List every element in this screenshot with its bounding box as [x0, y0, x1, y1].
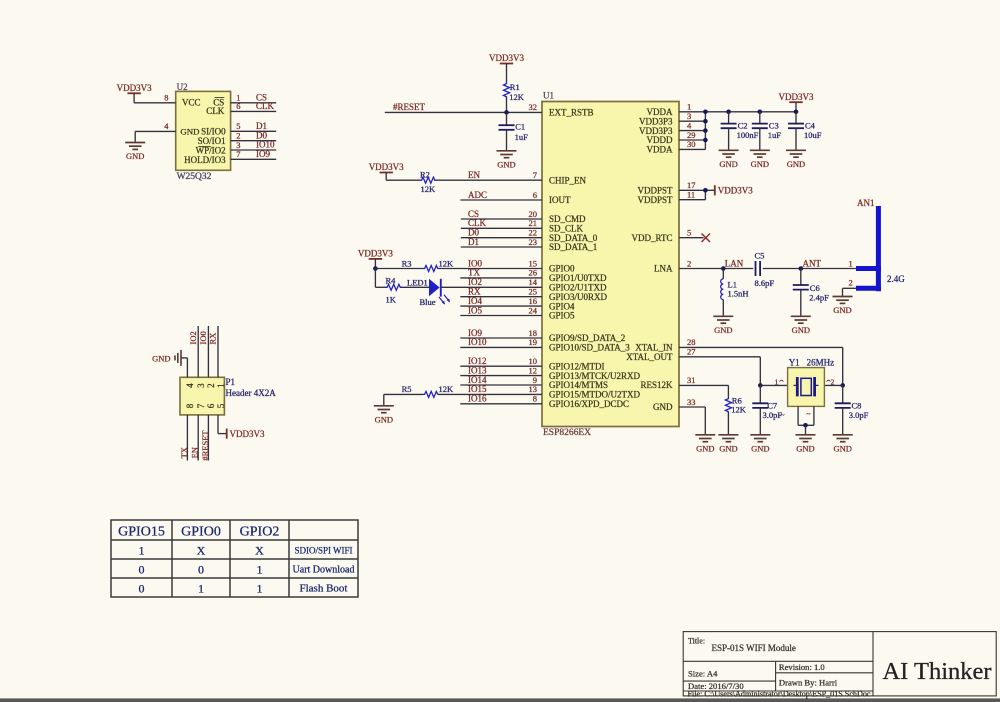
svg-text:AN1: AN1 [857, 198, 875, 208]
crystal Y1 body [788, 368, 825, 407]
svg-text:GND: GND [375, 414, 393, 424]
wire U1 net IO14 [460, 384, 542, 386]
svg-text:C3: C3 [769, 120, 779, 130]
svg-text:1.5nH: 1.5nH [728, 289, 749, 299]
capacitor C6 [793, 285, 809, 290]
svg-text:Size: A4: Size: A4 [688, 669, 718, 679]
svg-text:100nF: 100nF [737, 130, 759, 140]
wire U1 pin 1 power rail [679, 111, 796, 113]
wire header pin 3 net IO2 [197, 326, 199, 377]
svg-text:0: 0 [139, 563, 145, 577]
svg-text:2.4G: 2.4G [887, 274, 905, 284]
svg-text:32: 32 [529, 102, 538, 112]
wire U1 net ADC [460, 199, 542, 201]
wire header pin 2 net IO0 [207, 326, 209, 377]
svg-text:IO10: IO10 [468, 337, 487, 347]
capacitor C8 [835, 403, 851, 408]
svg-text:IO9: IO9 [256, 149, 270, 159]
power VDD3V3 [789, 101, 802, 103]
wire C7 to ground [759, 408, 761, 435]
junction IO0 node [373, 266, 378, 271]
svg-text:LAN: LAN [725, 258, 744, 268]
svg-text:Y1: Y1 [789, 357, 800, 367]
capacitor C5 series [756, 261, 761, 276]
wire U1 pin 11 VDDPST [679, 199, 705, 201]
wire pin 33 down [704, 407, 706, 435]
svg-text:U1: U1 [543, 91, 554, 101]
resistor R6 [725, 397, 731, 413]
ground [791, 316, 811, 323]
svg-text:Header 4X2A: Header 4X2A [226, 388, 277, 398]
svg-text:IOUT: IOUT [549, 195, 571, 205]
svg-text:Revision: 1.0: Revision: 1.0 [779, 662, 825, 672]
wire U1 net IO12 [460, 365, 542, 367]
wire IO0 node to R3 [375, 268, 423, 270]
svg-text:GND: GND [792, 325, 810, 335]
wire U1 net D0 [461, 237, 542, 239]
svg-text:R3: R3 [402, 258, 412, 268]
wire C2 to ground [728, 128, 730, 150]
wire R5 to U1 pin 13 [439, 393, 543, 395]
svg-text:VDD3V3: VDD3V3 [117, 83, 152, 93]
wire U1 net IO13 [460, 375, 542, 377]
svg-text:6: 6 [533, 190, 537, 200]
wire VDDPST join [704, 190, 706, 199]
capacitor C3 [752, 124, 768, 129]
wire rail to C2 [728, 112, 730, 124]
wire C5 to ANT node [763, 268, 858, 270]
ground [833, 435, 853, 442]
wire U1 net IO16 [460, 403, 542, 405]
main chip U1 ESP8266EX body [542, 102, 679, 427]
svg-text:LED1: LED1 [407, 277, 428, 287]
svg-text:8: 8 [185, 403, 195, 408]
svg-text:GPIO5: GPIO5 [549, 311, 575, 321]
svg-text:C4: C4 [805, 120, 816, 130]
crystal electrodes [794, 377, 819, 396]
svg-text:1: 1 [257, 582, 263, 596]
wire down to R6 [727, 385, 729, 397]
svg-text:1uF: 1uF [768, 130, 782, 140]
power VDD3V3 [500, 63, 513, 65]
wire C1 to ground [506, 130, 508, 151]
svg-text:IO2: IO2 [468, 277, 482, 287]
wire U2 pin 7 net IO9 [231, 158, 277, 160]
wire header pin 4 to ground [181, 357, 187, 359]
ground [719, 150, 739, 157]
svg-text:#RESET: #RESET [200, 430, 210, 461]
ground [695, 435, 715, 442]
svg-text:GND: GND [719, 159, 737, 169]
svg-text:31: 31 [687, 375, 696, 385]
svg-text:ESP8266EX: ESP8266EX [543, 428, 591, 438]
svg-text:10uF: 10uF [804, 130, 822, 140]
svg-text:8.6pF: 8.6pF [755, 278, 775, 288]
wire VDD3V3 to U2 VCC [133, 93, 135, 103]
capacitor C2 [721, 124, 737, 129]
svg-text:HOLD/IO3: HOLD/IO3 [184, 155, 226, 165]
wire U1 net TX [460, 277, 542, 279]
svg-text:#RESET: #RESET [393, 102, 426, 112]
power VDD3V3 port sideways [714, 185, 716, 195]
svg-text:IO16: IO16 [468, 394, 487, 404]
wire header pin 1 net RX [217, 326, 219, 377]
svg-text:3.0pF: 3.0pF [763, 410, 783, 420]
wire IO0 node down to R4 [374, 269, 376, 288]
capacitor C4 [788, 124, 804, 129]
wire U1 pin 5 VDD_RTC [679, 237, 704, 239]
wire U1 net CS [461, 218, 542, 220]
wire U1 pin 27 XTAL_OUT [679, 356, 760, 358]
wire header pin 6 net #RESET [207, 415, 209, 461]
ground [750, 435, 770, 442]
svg-text:33: 33 [687, 397, 696, 407]
svg-text:1: 1 [257, 563, 263, 577]
capacitor C7 [752, 403, 768, 408]
svg-text:GND: GND [751, 159, 769, 169]
resistor R1 [504, 82, 510, 98]
svg-text:Drawn By: Harri: Drawn By: Harri [779, 678, 838, 688]
svg-text:C2: C2 [738, 120, 748, 130]
junction reset node [504, 110, 509, 115]
svg-text:SDIO/SPI WIFI: SDIO/SPI WIFI [294, 546, 352, 556]
svg-text:LNA: LNA [654, 264, 673, 274]
svg-text:27: 27 [687, 347, 696, 357]
svg-text:VCC: VCC [182, 98, 201, 108]
svg-text:7: 7 [236, 149, 240, 159]
wire VDD3V3 down to EN wire [385, 173, 387, 181]
svg-text:7: 7 [533, 170, 537, 180]
svg-text:5: 5 [687, 228, 691, 238]
power VDD3V3 sideways for header [226, 429, 228, 439]
svg-text:15: 15 [529, 258, 538, 268]
svg-text:GND: GND [497, 159, 515, 169]
svg-text:ADC: ADC [468, 190, 487, 200]
svg-text:EN: EN [468, 170, 480, 180]
wire EN to U1 pin 7 [436, 179, 543, 181]
LED LED1 blue [429, 279, 450, 305]
wire to R4 [375, 286, 385, 288]
junction VDDPST [703, 188, 708, 193]
wire crystal left pin [760, 384, 789, 386]
svg-text:VDD3V3: VDD3V3 [230, 429, 265, 439]
resistor R4 [386, 284, 402, 290]
wire VDD3V3 down to IO0 node [374, 259, 376, 269]
svg-text:GND: GND [796, 443, 814, 453]
svg-text:GPIO16/XPD_DCDC: GPIO16/XPD_DCDC [549, 399, 629, 409]
svg-text:12K: 12K [421, 184, 437, 194]
svg-text:0: 0 [139, 582, 145, 596]
capacitor C1 [499, 125, 515, 130]
svg-text:11: 11 [687, 190, 695, 200]
svg-text:SD_DATA_1: SD_DATA_1 [549, 242, 597, 252]
wire R4 to LED1 [401, 286, 429, 288]
junction LAN node [721, 266, 726, 271]
svg-text:1: 1 [775, 377, 779, 386]
svg-text:3.0pF: 3.0pF [849, 410, 869, 420]
svg-text:GND: GND [696, 443, 714, 453]
svg-text:GND: GND [653, 402, 673, 412]
no-connect cross on pin 5 [702, 234, 711, 243]
wire C3 to ground [759, 128, 761, 150]
wire node to C1 [506, 112, 508, 125]
svg-text:1uF: 1uF [515, 132, 529, 142]
svg-text:Uart Download: Uart Download [293, 565, 355, 576]
svg-text:IO2: IO2 [188, 331, 198, 344]
junction crystal ground [803, 423, 808, 428]
inductor L1 [722, 269, 724, 279]
wire L1 to ground [722, 300, 724, 317]
ground [125, 143, 145, 150]
svg-text:GND: GND [833, 305, 851, 315]
wire #RESET to U1 pin 32 [385, 111, 542, 113]
svg-text:GPIO2: GPIO2 [240, 525, 280, 540]
svg-text:SO/IO1: SO/IO1 [198, 136, 226, 146]
svg-text:2.4pF: 2.4pF [809, 292, 829, 302]
svg-text:P1: P1 [226, 377, 236, 387]
svg-text:VDDA: VDDA [647, 145, 673, 155]
svg-text:U2: U2 [177, 82, 188, 92]
svg-text:2: 2 [206, 383, 216, 388]
svg-text:30: 30 [687, 139, 696, 149]
wire U1 pin 2 LNA [679, 268, 753, 270]
wire EN left segment [386, 179, 420, 181]
svg-text:8: 8 [533, 394, 537, 404]
resistor R5 [423, 391, 439, 397]
wire C6 to ground [800, 290, 802, 317]
wire crystal ground drop [805, 425, 807, 435]
crystal case ground pins [797, 406, 799, 425]
wire C7 tap [759, 385, 761, 403]
svg-text:1: 1 [216, 383, 226, 388]
svg-text:X: X [197, 544, 206, 558]
wire U1 pin 3 to power bus [679, 120, 705, 122]
svg-text:C1: C1 [515, 121, 525, 131]
svg-text:D1: D1 [468, 237, 479, 247]
svg-text:14: 14 [529, 277, 538, 287]
wire U1 net IO10 [460, 346, 542, 348]
wire U1 pin 4 to power bus [679, 130, 705, 132]
svg-text:IO0: IO0 [198, 331, 208, 344]
wire U1 pin 29 to power bus [679, 139, 705, 141]
svg-text:GND: GND [719, 443, 737, 453]
wire U1 net IO5 [460, 315, 542, 317]
svg-text:4: 4 [185, 383, 195, 388]
svg-text:VDDPST: VDDPST [637, 195, 673, 205]
svg-text:23: 23 [529, 237, 538, 247]
svg-text:1K: 1K [386, 294, 397, 304]
svg-text:EXT_RSTB: EXT_RSTB [549, 108, 594, 118]
svg-text:2: 2 [831, 377, 835, 386]
wire U1 net CLK [461, 227, 542, 229]
ground [833, 297, 853, 304]
boot mode table grid [111, 520, 358, 597]
svg-text:GND: GND [152, 353, 170, 363]
title block frame [683, 632, 996, 696]
junction power bus [703, 110, 708, 115]
svg-text:VDD3V3: VDD3V3 [358, 249, 393, 259]
svg-text:GND: GND [126, 151, 144, 161]
svg-text:GPIO0: GPIO0 [181, 525, 221, 540]
svg-text:R5: R5 [402, 384, 412, 394]
ground [374, 406, 394, 413]
svg-text:1: 1 [849, 258, 853, 268]
svg-text:VDD3V3: VDD3V3 [718, 186, 753, 196]
wire ground riser to R5 [383, 394, 385, 405]
svg-text:XTAL_OUT: XTAL_OUT [626, 352, 673, 362]
svg-text:W25Q32: W25Q32 [177, 172, 212, 182]
wire VDD3V3 to R1 [506, 64, 508, 83]
wire power bus vertical [704, 112, 706, 150]
svg-text:12K: 12K [439, 258, 455, 268]
svg-text:X: X [255, 544, 264, 558]
svg-text:3: 3 [196, 383, 206, 388]
svg-text:12K: 12K [509, 92, 525, 102]
svg-text:0: 0 [198, 563, 204, 577]
svg-text:VDD3V3: VDD3V3 [369, 162, 404, 172]
wire R6 to ground [727, 413, 729, 435]
wire U2 pin 1 net CS [231, 102, 277, 104]
svg-text:~: ~ [806, 409, 810, 418]
svg-text:Title:: Title: [688, 637, 705, 646]
svg-text:GND: GND [751, 443, 769, 453]
svg-text:ANT: ANT [803, 258, 822, 268]
svg-text:GND: GND [833, 443, 851, 453]
bottom scan bar [0, 698, 1000, 702]
svg-text:19: 19 [529, 337, 538, 347]
wire U2 pin 6 net CLK [231, 110, 277, 112]
junction crystal left [758, 383, 763, 388]
svg-text:2: 2 [687, 258, 691, 268]
wire rail to C3 [759, 112, 761, 124]
svg-text:IO0: IO0 [468, 258, 482, 268]
flash chip U2 W25Q32 body [176, 91, 231, 170]
wire antenna pin 2 to ground [843, 287, 857, 289]
svg-text:2: 2 [849, 277, 853, 287]
svg-text:1: 1 [139, 544, 145, 558]
wire crystal right pin [823, 384, 843, 386]
svg-text:Flash Boot: Flash Boot [300, 583, 348, 595]
junction rail taps [726, 110, 731, 115]
wire C4 to ground [795, 128, 797, 150]
wire U1 pin 33 GND [679, 406, 705, 408]
power VDD3V3 [369, 258, 382, 260]
wire U1 net D1 [461, 246, 542, 248]
svg-text:7: 7 [196, 403, 206, 408]
wire U2 pin 2 net D0 [231, 140, 277, 142]
svg-text:CLK: CLK [256, 101, 275, 111]
wire C8 tap [842, 385, 844, 403]
svg-text:12K: 12K [439, 384, 455, 394]
ground [497, 151, 517, 158]
svg-text:Blue: Blue [420, 297, 436, 307]
svg-text:VDD3V3: VDD3V3 [489, 53, 524, 63]
wire R1 to reset node [506, 98, 508, 113]
wire C8 to ground [842, 408, 844, 435]
wire U2 pin 5 net D1 [231, 130, 277, 132]
svg-text:File: C:\Users\Administrator\: File: C:\Users\Administrator\Desktop\ESP… [688, 689, 871, 698]
svg-text:CHIP_EN: CHIP_EN [549, 175, 587, 185]
wire U1 net IO4 [460, 305, 542, 307]
ground [718, 435, 738, 442]
svg-text:26MHz: 26MHz [807, 357, 835, 367]
wire R3 to U1 pin 15 [439, 268, 543, 270]
ground [796, 435, 816, 442]
wire ANT node to C6 [800, 269, 802, 286]
wire LED1 to U1 pin 14 [441, 286, 542, 288]
ground [713, 316, 733, 323]
svg-text:IO5: IO5 [468, 305, 482, 315]
resistor R2 [420, 177, 436, 183]
wire U1 pin 28 XTAL_IN [679, 346, 843, 348]
svg-text:1: 1 [198, 582, 204, 596]
wire U1 pin 30 to power bus [679, 148, 705, 150]
wire VDD3V3 to rail [795, 102, 797, 112]
ground [786, 150, 806, 157]
svg-text:12K: 12K [731, 404, 747, 414]
svg-text:R1: R1 [510, 82, 520, 92]
wire header pin 8 net TX [186, 415, 188, 461]
resistor R3 [423, 266, 439, 272]
svg-text:VDD3V3: VDD3V3 [779, 92, 814, 102]
svg-text:24: 24 [529, 305, 538, 315]
wire header pin 7 net EN [197, 415, 199, 461]
junction ANT node [799, 266, 804, 271]
wire U2 pin 3 net IO10 [231, 149, 277, 151]
wire to R5 [384, 393, 423, 395]
svg-text:AI Thinker: AI Thinker [882, 658, 991, 685]
wire U2 GND pin [135, 130, 176, 132]
power VDD3V3 [127, 92, 140, 94]
svg-text:CLK: CLK [206, 106, 225, 116]
svg-text:R2: R2 [420, 169, 430, 179]
svg-text:5: 5 [216, 403, 226, 408]
svg-text:8: 8 [164, 93, 168, 103]
antenna AN1 [859, 209, 879, 289]
wire rail to C4 [795, 112, 797, 124]
svg-text:RX: RX [208, 333, 218, 345]
wire U1 net IO9 [460, 337, 542, 339]
svg-text:EN: EN [190, 447, 200, 458]
svg-text:6: 6 [206, 403, 216, 408]
wire U1 pin 31 RES12K [679, 384, 728, 386]
junction crystal right [840, 383, 845, 388]
ground [750, 150, 770, 157]
svg-text:VDD_RTC: VDD_RTC [632, 233, 673, 243]
svg-text:GPIO15: GPIO15 [118, 525, 165, 540]
header P1 body [180, 377, 224, 415]
svg-text:ESP-01S WIFI Module: ESP-01S WIFI Module [712, 643, 796, 653]
svg-text:6: 6 [236, 101, 240, 111]
svg-text:IO15: IO15 [468, 384, 487, 394]
svg-text:GND: GND [787, 159, 805, 169]
svg-text:R4: R4 [386, 275, 397, 285]
svg-text:GND: GND [714, 325, 732, 335]
ground sideways for header pin 4 [175, 350, 181, 366]
svg-text:RES12K: RES12K [640, 380, 673, 390]
wire U1 net RX [460, 296, 542, 298]
power VDD3V3 [380, 172, 393, 174]
svg-text:GPIO10/SD_DATA_3: GPIO10/SD_DATA_3 [549, 343, 630, 353]
wire U1 pin 17 VDDPST [679, 189, 715, 191]
svg-text:TX: TX [179, 447, 189, 458]
svg-text:13: 13 [529, 384, 538, 394]
svg-text:C5: C5 [755, 251, 765, 261]
wire header pin 5 to VDD3V3 [217, 415, 219, 434]
